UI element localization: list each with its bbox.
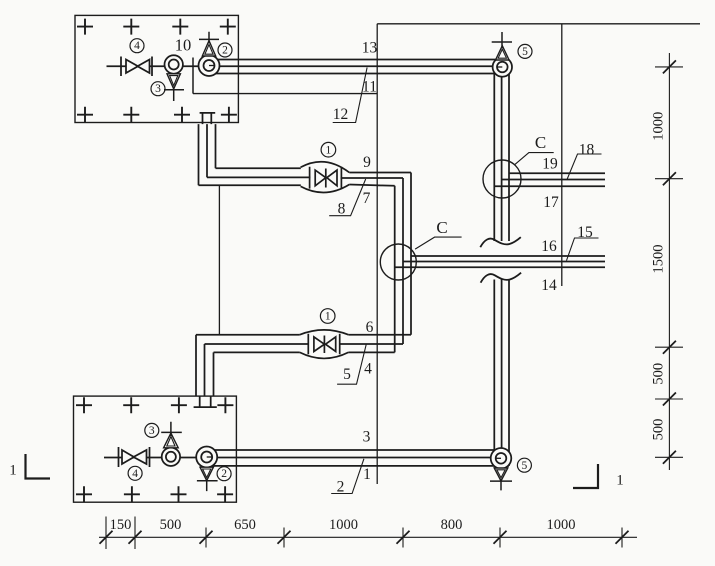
pipe upper run right horizontals from valve U1	[341, 173, 412, 186]
right riser pipes lower segment	[494, 280, 509, 466]
box B2 (bottom pump room)	[74, 396, 237, 502]
svg-text:1: 1	[326, 144, 332, 156]
svg-text:5: 5	[343, 366, 351, 383]
water meter M2 box B2	[162, 448, 180, 466]
vent symbol 3 above meter box B2	[161, 422, 182, 448]
dimension ticks bottom	[100, 531, 629, 544]
svg-text:4: 4	[132, 468, 138, 480]
pipe 12 horizontal to wall	[193, 93, 377, 95]
svg-text:650: 650	[234, 517, 256, 533]
node C1 circle	[483, 160, 521, 198]
svg-text:150: 150	[110, 517, 132, 533]
drain symbol below hydrant H2 box B2	[197, 467, 218, 491]
T fitting at box B2 top	[194, 396, 217, 407]
svg-text:1000: 1000	[547, 517, 576, 533]
pipe verticals between runs	[395, 173, 411, 353]
leader for label 5	[337, 345, 366, 385]
svg-text:6: 6	[366, 319, 374, 336]
svg-text:5: 5	[522, 46, 528, 58]
svg-text:16: 16	[541, 238, 557, 255]
svg-text:1000: 1000	[651, 112, 667, 141]
svg-text:1000: 1000	[329, 517, 358, 533]
leader for label 2	[331, 459, 364, 494]
svg-text:15: 15	[577, 224, 593, 241]
leader for label 18	[567, 154, 602, 180]
pipe connector single line	[218, 185, 220, 334]
water meter M1 box B1	[165, 55, 183, 73]
right riser pipes upper segment	[494, 66, 509, 241]
svg-text:7: 7	[363, 190, 371, 207]
svg-text:5: 5	[522, 460, 528, 472]
pipe main top run center line through valve V4 meter and hydrant	[107, 65, 503, 67]
svg-text:4: 4	[134, 40, 140, 52]
vent symbol above hydrant H5 top	[492, 32, 512, 60]
valve U1 upper bowtie	[310, 167, 342, 189]
svg-text:9: 9	[363, 154, 371, 171]
section mark 1 right	[573, 464, 598, 488]
pipe risers to box B2	[196, 335, 214, 396]
pipe lower run left horizontals	[196, 335, 309, 353]
branch pipes 16 14 15 from node C2	[395, 256, 605, 267]
dimension texts bottom	[110, 517, 576, 533]
svg-text:18: 18	[579, 142, 595, 159]
plus marks box B2	[76, 397, 233, 502]
valve U1 lower bowtie	[308, 334, 339, 355]
pipe riser group from box B1 down	[199, 124, 216, 185]
svg-text:1500: 1500	[651, 245, 667, 274]
dimension texts right rotated	[651, 112, 667, 441]
pipe bottom run lower line	[204, 465, 509, 467]
break symbol S2 on riser	[481, 273, 521, 283]
leader for label 8	[329, 179, 366, 216]
svg-text:3: 3	[149, 425, 155, 437]
svg-text:2: 2	[222, 45, 228, 57]
svg-text:C: C	[436, 218, 447, 237]
svg-text:2: 2	[221, 468, 227, 480]
hydrant H2 box B2	[196, 447, 217, 468]
dimension ticks right	[663, 60, 676, 463]
svg-text:14: 14	[541, 277, 557, 294]
svg-text:10: 10	[175, 36, 192, 55]
svg-text:13: 13	[362, 40, 378, 57]
pipe lower run right horizontals	[339, 335, 411, 353]
box B1 (top pump room)	[75, 15, 238, 122]
node C2 circle	[380, 244, 416, 280]
svg-text:1: 1	[325, 311, 331, 323]
hydrant H2 box B1	[199, 55, 220, 76]
svg-text:1: 1	[616, 473, 624, 489]
svg-text:1: 1	[363, 466, 371, 483]
pipe upper run left horizontals to valve U1	[199, 168, 311, 185]
svg-text:3: 3	[363, 429, 371, 446]
leader for node C1 label	[515, 153, 554, 165]
svg-text:500: 500	[651, 363, 667, 385]
section mark 1 left	[26, 454, 51, 479]
svg-text:500: 500	[160, 517, 182, 533]
svg-text:1: 1	[9, 463, 17, 479]
svg-text:17: 17	[543, 194, 559, 211]
svg-text:8: 8	[338, 201, 346, 218]
gate valve V4 box B2	[119, 447, 150, 467]
pipe main top run line 13 upper	[205, 59, 496, 61]
valve U1 lower capsule	[300, 330, 349, 359]
dimension line right	[655, 53, 683, 470]
vent symbol above hydrant H2 box B1	[199, 32, 219, 56]
svg-text:2: 2	[337, 479, 345, 496]
pipe bottom run center line 1	[104, 457, 502, 459]
branch pipes 19 17 18 from node C1	[494, 173, 605, 186]
leader for label 15	[567, 238, 599, 261]
svg-text:C: C	[535, 133, 546, 152]
wall line vertical right	[561, 24, 563, 286]
hydrant H5 bottom right	[491, 448, 512, 469]
pipe 11 lower line top run	[202, 73, 494, 75]
svg-text:11: 11	[362, 79, 377, 96]
dimension line bottom	[99, 517, 637, 550]
svg-text:3: 3	[155, 83, 161, 95]
T fitting at box B1 bottom	[200, 113, 216, 124]
drain cock symbol 3 below meter box B1	[164, 74, 184, 101]
svg-text:500: 500	[651, 419, 667, 441]
plus marks box B1	[77, 19, 237, 123]
pipe bottom run line 3	[204, 449, 494, 451]
drain symbol below hydrant H5 bottom	[490, 468, 512, 490]
wall line vertical center	[376, 24, 378, 484]
wall line horizontal top	[377, 23, 700, 25]
leader for label 12	[333, 68, 367, 123]
break symbol S1 on riser	[480, 237, 521, 247]
svg-text:19: 19	[542, 156, 558, 173]
gate valve V4 box B1	[121, 57, 152, 77]
pipe 12 drop from meter line	[192, 58, 194, 94]
hydrant H5 top right	[493, 57, 512, 76]
svg-text:12: 12	[333, 106, 349, 123]
svg-text:800: 800	[441, 517, 463, 533]
svg-text:4: 4	[364, 361, 372, 378]
leader for node C2 label	[415, 237, 462, 249]
valve U1 upper capsule	[301, 162, 350, 193]
circled label 4 box B1	[128, 39, 532, 481]
